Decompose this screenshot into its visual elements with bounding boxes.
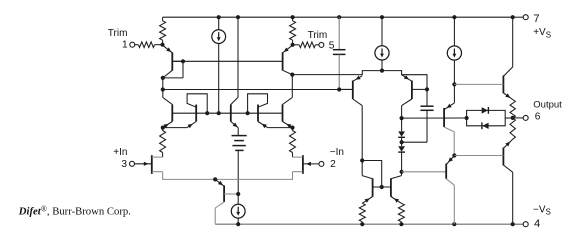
resistor R5 (left emitter node to J1 drain) bbox=[160, 128, 166, 158]
svg-text:2: 2 bbox=[330, 159, 336, 170]
transistor Q10 (upper driver) bbox=[444, 84, 454, 155]
svg-text:7: 7 bbox=[533, 13, 539, 25]
node Q9 collector node bbox=[400, 116, 404, 120]
wire clamp box bbox=[467, 110, 506, 125]
wire Q9 collector down bbox=[401, 106, 403, 119]
transistor Q3 bbox=[163, 90, 173, 129]
wire Q1 collector down bbox=[162, 78, 164, 90]
label -In bbox=[330, 147, 344, 158]
transistor Q12a (mirror left) bbox=[362, 161, 372, 204]
svg-text:Output: Output bbox=[533, 99, 562, 110]
node output bbox=[511, 116, 515, 120]
label Trim (pin 1) bbox=[108, 28, 128, 39]
transistor Q8 (second stage left) bbox=[339, 76, 362, 106]
current source I4 (tail reference) bbox=[231, 194, 245, 224]
node Q4 collector to base line bbox=[205, 111, 209, 115]
transistor Q2 bbox=[283, 45, 293, 74]
node Q2 collector bbox=[290, 73, 294, 77]
transistor Q11 (lower driver) bbox=[446, 156, 454, 225]
svg-text:Trim: Trim bbox=[108, 28, 128, 39]
node mirror bases bbox=[380, 185, 384, 189]
capacitor C2 (dual, Q5 emitter to tail) bbox=[232, 128, 247, 194]
resistor R9 (mirror left emitter) bbox=[359, 203, 365, 224]
node trim5 bbox=[291, 43, 295, 47]
label pin 7 bbox=[533, 13, 539, 25]
transistor Q9 (second stage right) bbox=[402, 75, 427, 106]
resistor R1 (rail to trim node, left) bbox=[160, 17, 166, 45]
node Q1 collector to long line bbox=[161, 87, 165, 91]
svg-text:4: 4 bbox=[534, 218, 540, 230]
node Q13 base bbox=[236, 192, 240, 196]
wire lower driver base line (y=171.8) bbox=[402, 171, 447, 173]
wire +Vs top rail bbox=[163, 16, 513, 18]
node Q6 collector to base line bbox=[246, 111, 250, 115]
wire +Vs rail to pin 7 bbox=[513, 16, 523, 18]
resistor R2 (trim pin 1 series) bbox=[135, 42, 163, 48]
node I1 to base line bbox=[217, 111, 221, 115]
wire cascode base line (y=113.2) bbox=[172, 112, 282, 114]
terminal pin 5 Trim bbox=[319, 42, 324, 47]
wire mirror base line bbox=[373, 186, 391, 188]
terminal pin 3 +In bbox=[130, 161, 135, 166]
wire diode chain bottom bbox=[401, 152, 403, 172]
wire -Vs bottom rail bbox=[215, 223, 513, 225]
node Q8 base node bbox=[425, 87, 429, 91]
label +In bbox=[113, 147, 127, 158]
resistor R6 (right emitter node to J2 drain) bbox=[290, 128, 296, 158]
transistor Q5 bbox=[231, 17, 238, 128]
wire mirror base feed bbox=[362, 161, 382, 188]
label Output bbox=[533, 99, 562, 110]
wire input cascode rail (y=89.5) bbox=[163, 89, 353, 91]
node input pair left emitter node bbox=[161, 126, 165, 130]
node I3 to Q14 base bbox=[452, 82, 456, 86]
wire upper driver base line (y=118) bbox=[402, 117, 467, 119]
wire clamp to output bbox=[505, 117, 513, 119]
capacitor C3 (pole splitting) bbox=[402, 89, 434, 142]
node C1 to base line bbox=[337, 87, 341, 91]
node second stage emitter node bbox=[380, 69, 384, 73]
transistor Q13 (tail current sink) bbox=[215, 179, 238, 224]
current source I3 bbox=[447, 17, 461, 84]
transistor Q12b (mirror right) bbox=[391, 172, 402, 204]
node -Vs rail junction dots bbox=[236, 222, 515, 226]
node clamp box left bbox=[465, 116, 469, 120]
node second stage to mirror bbox=[360, 158, 364, 162]
svg-text:+In: +In bbox=[113, 147, 127, 158]
label Trim (pin 5) bbox=[308, 30, 328, 41]
node Q10 collector to Q15 base bbox=[452, 153, 456, 157]
node tail node bbox=[213, 177, 217, 181]
label pin 4 bbox=[534, 218, 540, 230]
label Difet footnote bbox=[18, 204, 131, 217]
terminal pin 6 Output bbox=[523, 115, 528, 120]
svg-text:3: 3 bbox=[121, 159, 127, 170]
wire Q8 collector down bbox=[361, 106, 363, 161]
svg-text:Trim: Trim bbox=[308, 30, 328, 41]
wire Q1 base tie bbox=[163, 61, 183, 78]
diode D3 (clamp right) bbox=[482, 107, 489, 114]
current source I1 bbox=[212, 17, 226, 113]
label -Vs bbox=[533, 204, 551, 216]
svg-text:−In: −In bbox=[330, 147, 344, 158]
terminal pin 2 -In bbox=[319, 161, 324, 166]
transistor Q15 (output lower) bbox=[454, 139, 512, 224]
wire J1 source down bbox=[163, 172, 216, 180]
diode D2 bbox=[398, 146, 405, 152]
resistor R8 (output lower emitter) bbox=[510, 118, 515, 139]
wire output node to pin 6 bbox=[513, 117, 523, 119]
wire diode chain mid bbox=[401, 137, 403, 146]
capacitor C1 (rail to second stage base) bbox=[333, 17, 346, 89]
node input pair right emitter node bbox=[290, 126, 294, 130]
transistor Q4 bbox=[163, 94, 207, 128]
wire J2 source down bbox=[215, 172, 292, 180]
resistor R3 (rail to trim node, right) bbox=[290, 17, 296, 45]
transistor Q7 bbox=[283, 75, 293, 129]
label pin 5 bbox=[329, 40, 335, 51]
diode D4 (clamp left) bbox=[482, 122, 489, 129]
svg-text:1: 1 bbox=[122, 40, 128, 51]
node diode mid tap bbox=[400, 140, 404, 144]
resistor R7 (output upper emitter) bbox=[510, 100, 515, 118]
diode D1 bbox=[398, 131, 405, 137]
terminal pin 7 bbox=[523, 15, 528, 20]
resistor R4 (trim pin 5 series) bbox=[293, 42, 319, 48]
label pin 2 bbox=[330, 159, 336, 170]
transistor Q6 bbox=[248, 94, 293, 128]
terminal pin 4 bbox=[523, 222, 528, 227]
label pin 6 bbox=[535, 111, 541, 122]
node Q1 base-collector tie bbox=[161, 59, 185, 80]
current source I2 bbox=[375, 17, 389, 70]
transistor Q14 (output upper) bbox=[454, 17, 512, 99]
label pin 3 bbox=[121, 159, 127, 170]
node diode chain to Q15 base bbox=[400, 170, 404, 174]
wire -Vs rail to pin 4 bbox=[513, 223, 523, 225]
resistor R10 (mirror right emitter) bbox=[398, 203, 404, 224]
jfet J1 (+input) bbox=[135, 155, 163, 174]
wire Q2 collector to second stage bbox=[292, 71, 427, 90]
svg-text:Difet®, Burr-Brown Corp.: Difet®, Burr-Brown Corp. bbox=[18, 204, 131, 217]
node trim1 bbox=[160, 43, 164, 47]
jfet J2 (-input) bbox=[293, 155, 319, 174]
label pin 1 bbox=[122, 40, 128, 51]
node +Vs rail junction dots bbox=[217, 15, 515, 19]
wire Q1-Q2 base line bbox=[172, 60, 282, 62]
wire diode chain top bbox=[401, 118, 403, 131]
label +Vs bbox=[533, 27, 551, 39]
transistor Q1 bbox=[163, 45, 173, 78]
svg-text:6: 6 bbox=[535, 111, 541, 122]
terminal pin 1 Trim bbox=[130, 42, 135, 47]
